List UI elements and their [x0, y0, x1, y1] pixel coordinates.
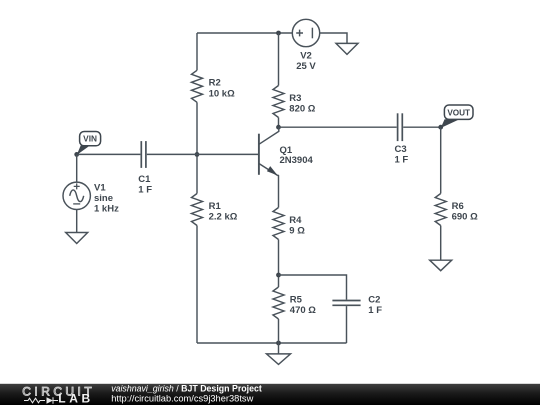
svg-text:R1: R1 — [209, 201, 222, 212]
wire C3 to VOUT node — [403, 126, 441, 128]
wire VIN node to C1 — [77, 153, 141, 155]
svg-text:R6: R6 — [452, 201, 464, 212]
capacitor C1 — [141, 141, 146, 168]
resistor R1 — [192, 194, 203, 226]
svg-text:1 F: 1 F — [368, 305, 382, 316]
flag VOUT — [441, 105, 473, 128]
svg-text:vaishnavi_girish / BJT Design: vaishnavi_girish / BJT Design Project — [111, 384, 262, 394]
capacitor C2 — [332, 301, 360, 306]
wire emitter to R4 — [277, 175, 280, 208]
wire R4 to R5 node — [278, 240, 280, 288]
svg-text:470 Ω: 470 Ω — [290, 305, 316, 316]
resistor R6 — [435, 194, 446, 226]
wire V1 to ground — [76, 210, 78, 233]
wire C1 to base — [147, 153, 259, 155]
svg-text:820 Ω: 820 Ω — [289, 104, 315, 115]
svg-text:2N3904: 2N3904 — [280, 155, 314, 166]
flag VIN — [77, 132, 101, 156]
wire left rail lower — [196, 226, 198, 344]
svg-text:C3: C3 — [395, 144, 407, 155]
node junction bottom — [276, 341, 281, 346]
wire R6 to ground — [440, 226, 442, 261]
svg-text:VOUT: VOUT — [447, 109, 470, 118]
svg-text:690 Ω: 690 Ω — [452, 212, 478, 223]
wire VIN node to V1 — [76, 154, 78, 182]
svg-text:R4: R4 — [289, 215, 302, 226]
resistor R2 — [192, 70, 203, 102]
svg-text:10 kΩ: 10 kΩ — [209, 88, 235, 99]
svg-text:VIN: VIN — [83, 134, 97, 144]
ground (V2) — [336, 43, 358, 54]
svg-text:2.2 kΩ: 2.2 kΩ — [209, 212, 238, 223]
wire VOUT node to R6 — [440, 127, 442, 193]
svg-text:1 kHz: 1 kHz — [94, 204, 119, 215]
wire C2 bottom branch — [346, 306, 348, 343]
resistor R5 — [273, 287, 284, 319]
svg-text:http://circuitlab.com/cs9j3her: http://circuitlab.com/cs9j3her38tsw — [111, 393, 253, 403]
wire R3 to collector node — [278, 118, 280, 128]
wire left rail middle — [196, 102, 198, 193]
node VOUT — [438, 125, 443, 130]
voltage source V2 — [292, 19, 319, 46]
svg-text:V2: V2 — [300, 50, 312, 61]
wire bottom rail — [197, 342, 347, 344]
wire top rail from left rail to V2 — [197, 32, 292, 34]
svg-text:sine: sine — [94, 193, 113, 204]
resistor R4 — [273, 208, 284, 240]
node junction base/divider — [195, 152, 200, 157]
svg-text:1 F: 1 F — [138, 185, 152, 196]
svg-text:C2: C2 — [368, 295, 380, 306]
svg-text:1 F: 1 F — [395, 154, 409, 165]
wire V2 to ground — [320, 33, 347, 43]
wire left rail upper — [196, 33, 198, 70]
resistor R3 — [273, 86, 284, 118]
svg-text:C1: C1 — [138, 174, 151, 185]
logo resistor-diode glyph — [24, 397, 58, 403]
node collector junction — [276, 125, 281, 130]
svg-text:LAB: LAB — [58, 392, 93, 405]
wire R5 to bottom rail — [278, 319, 280, 343]
transistor Q1 — [259, 127, 279, 175]
wire R3 branch top — [278, 33, 280, 86]
svg-text:V1: V1 — [94, 183, 106, 194]
wire C2 top branch — [279, 275, 347, 300]
capacitor C3 — [398, 113, 403, 141]
svg-text:9 Ω: 9 Ω — [289, 226, 305, 237]
svg-text:25 V: 25 V — [296, 61, 316, 72]
wire collector rail to C3 — [279, 126, 397, 128]
svg-text:R3: R3 — [289, 93, 301, 104]
node junction R4/R5/C2 — [276, 273, 281, 278]
ground (V1) — [66, 233, 88, 244]
svg-text:R5: R5 — [290, 294, 303, 305]
ground (bottom center) — [267, 343, 291, 364]
svg-text:R2: R2 — [209, 78, 221, 89]
node junction top rail — [276, 31, 281, 36]
ground (R6) — [430, 260, 452, 271]
voltage source V1 — [63, 182, 90, 209]
node VIN — [74, 152, 79, 157]
